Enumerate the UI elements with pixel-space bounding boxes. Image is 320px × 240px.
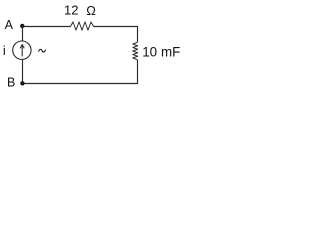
svg-text:mF: mF xyxy=(161,44,180,59)
wire top right (resistor to corner) xyxy=(94,26,139,28)
current source arrow xyxy=(21,45,23,57)
node A xyxy=(20,24,24,28)
capacitor 10 mF (vertical squiggle element) xyxy=(133,42,138,60)
wire right upper (corner down to capacitor) xyxy=(137,26,139,42)
wire top left (node A to resistor) xyxy=(22,26,71,28)
node B xyxy=(20,81,24,85)
wire left upper (node A down to source) xyxy=(22,26,24,41)
svg-text:12: 12 xyxy=(64,2,78,17)
svg-text:10: 10 xyxy=(142,44,157,59)
wire right lower (capacitor to bottom corner) xyxy=(137,60,139,84)
svg-text:i: i xyxy=(3,43,6,58)
resistor 12 ohm zigzag xyxy=(71,22,94,30)
svg-text:A: A xyxy=(5,18,14,32)
current source circle xyxy=(13,41,31,59)
svg-text:B: B xyxy=(7,76,15,90)
wire bottom (corner to node B) xyxy=(22,83,138,85)
svg-text:Ω: Ω xyxy=(86,3,96,18)
ac tilde symbol xyxy=(39,49,46,52)
wire left lower (source down to node B) xyxy=(22,59,24,83)
